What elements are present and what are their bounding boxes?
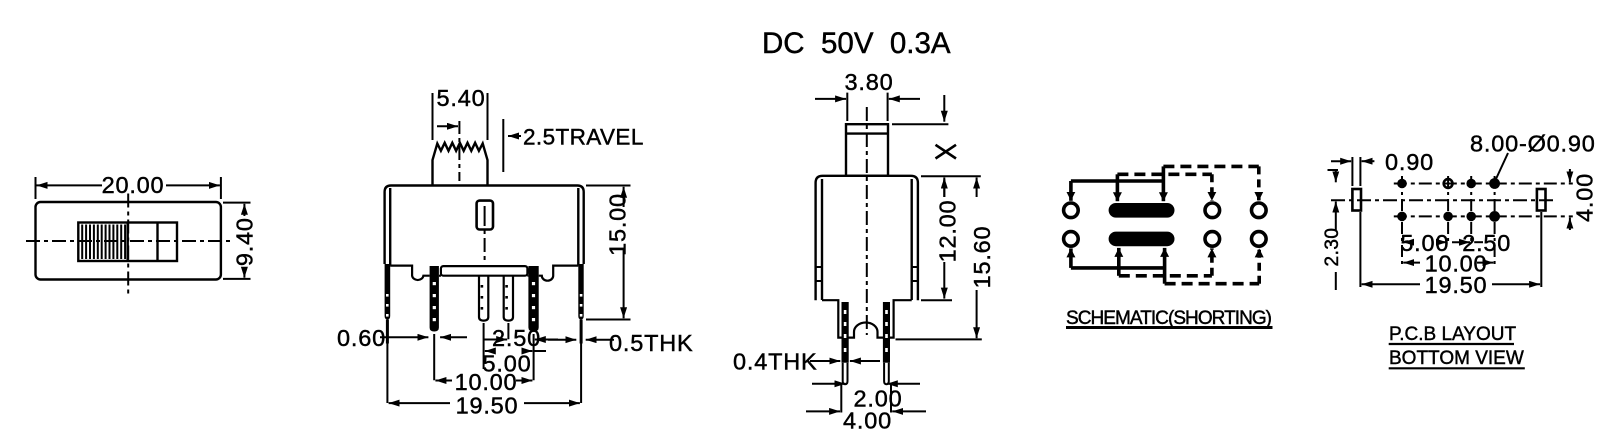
wire dashed top inner [1117, 173, 1212, 177]
terminal circle row2 col1 [1064, 232, 1079, 247]
wire dashed top outer [1163, 165, 1258, 169]
title underline 1 [1389, 343, 1514, 345]
X label [936, 145, 957, 159]
terminal circle row2 col4 [1205, 232, 1220, 247]
dimension 4.00 arrows [1569, 169, 1571, 182]
svg-text:0.90: 0.90 [1385, 149, 1434, 175]
terminal pin 5 (wide) [528, 266, 538, 332]
dimension 12.00 line with arrows [943, 179, 945, 197]
svg-text:P.C.B LAYOUT: P.C.B LAYOUT [1389, 324, 1516, 345]
hole r1c1 [1397, 179, 1407, 189]
dimension 3.80 arrows [815, 98, 846, 100]
svg-text:4.00: 4.00 [1572, 173, 1598, 222]
dimension 19.50 line with arrows [389, 402, 450, 404]
hole r2c1 [1397, 212, 1407, 222]
travel arrow to centerline [437, 125, 458, 127]
wire dashed bottom inner [1119, 274, 1212, 278]
shorting bar bottom [1109, 232, 1175, 247]
column centerline 2 [1447, 176, 1449, 242]
column centerline 1 [1401, 176, 1403, 266]
knob (side view) [846, 124, 888, 176]
main centerline (side view) [866, 107, 868, 335]
knob centerline [458, 121, 460, 181]
slider knob outline (top view) [78, 223, 177, 262]
svg-text:0.5THK: 0.5THK [609, 330, 693, 356]
dimension 4.00 extension lines [841, 384, 891, 413]
leader line to hole [1496, 153, 1509, 180]
side pin 2 [883, 302, 890, 384]
svg-text:12.00: 12.00 [935, 200, 961, 263]
pin centerline extensions [387, 323, 581, 403]
main horizontal centerline [1331, 199, 1554, 201]
hole r1c3 [1466, 179, 1476, 189]
dimension 15.00 extension lines [586, 186, 631, 320]
svg-text:BOTTOM VIEW: BOTTOM VIEW [1389, 348, 1524, 369]
hole r2c3 [1466, 212, 1476, 222]
svg-text:19.50: 19.50 [1425, 272, 1488, 298]
hole r1c2 (open) [1444, 179, 1453, 188]
dimension 5.00 line with arrows [1403, 241, 1414, 243]
dimension 0.5THK arrows [548, 339, 576, 341]
travel label arrow [508, 135, 521, 137]
svg-text:DC 50V 0.3A: DC 50V 0.3A [762, 27, 951, 60]
svg-text:8.00-Ø0.90: 8.00-Ø0.90 [1470, 131, 1596, 157]
hole r1c4 [1489, 178, 1500, 189]
dimension 0.90 arrows [1331, 160, 1351, 162]
dimension 20.00 extension lines [36, 177, 221, 199]
side latch notches [816, 267, 822, 281]
travel reference line [502, 119, 504, 172]
left mounting bracket pin [385, 264, 391, 344]
vertical centerline [127, 194, 129, 296]
terminal circle row1 col4 [1205, 203, 1220, 218]
svg-text:0.4THK: 0.4THK [733, 349, 817, 375]
pin bottom extension line [896, 338, 982, 340]
knob serration hatch [82, 225, 125, 260]
dimension 2.30 lower arrow and line [1335, 202, 1337, 231]
hole r2c2 [1443, 212, 1453, 222]
row centerline top [1394, 183, 1573, 185]
shorting bar top [1109, 203, 1175, 218]
dimension 2.30 tick [1328, 169, 1339, 171]
column centerline 3 [1470, 176, 1472, 242]
svg-text:9.40: 9.40 [232, 217, 258, 266]
svg-text:3.80: 3.80 [845, 69, 894, 95]
terminal pin 3 [479, 276, 488, 321]
dimension 5.00 line with arrows [485, 350, 495, 352]
terminal pin 4 [504, 276, 513, 321]
dimension 15.00 line with arrows [623, 187, 625, 207]
dimension 9.40 extension lines [223, 203, 251, 279]
column centerline 4 [1494, 176, 1496, 266]
dimension 20.00 line with arrows [37, 184, 103, 186]
svg-text:4.00: 4.00 [843, 408, 892, 434]
body bottom and stem outline [822, 300, 912, 337]
body top extension line [921, 175, 981, 177]
horizontal centerline [26, 240, 232, 242]
dimension 2.00 arrows [812, 383, 846, 385]
svg-text:2.30: 2.30 [1322, 228, 1343, 267]
center slot [477, 201, 493, 230]
dimension 19.50 line with arrows [1362, 283, 1420, 285]
hole r2c4 [1489, 211, 1500, 222]
svg-text:10.00: 10.00 [455, 369, 518, 395]
dimension 10.00 line with arrows [435, 380, 452, 382]
dimension 5.40 extension lines [433, 93, 488, 140]
terminal pin 2 (wide) [430, 266, 439, 332]
schematic title underline [1066, 326, 1273, 329]
X dimension upper arrow [943, 95, 945, 122]
svg-text:2.50: 2.50 [492, 325, 541, 351]
dimension 19.50 extension lines [1360, 212, 1541, 287]
svg-text:19.50: 19.50 [456, 393, 519, 419]
wire dashed bottom outer [1165, 282, 1260, 286]
dimension 3.80 extension lines [847, 93, 887, 121]
svg-text:2.5TRAVEL: 2.5TRAVEL [523, 124, 644, 149]
terminal circle row1 col1 [1064, 203, 1079, 218]
dimension 10.00 line with arrows [1403, 262, 1420, 264]
knob (front view) with knurled zigzag top [433, 143, 488, 186]
right mounting slot [1537, 189, 1546, 211]
svg-text:0.60: 0.60 [337, 325, 386, 351]
row centerline bottom [1394, 215, 1573, 217]
body centerline [484, 206, 486, 260]
switch body outline (top view) [36, 202, 221, 280]
terminal circle row1 col5 [1252, 203, 1267, 218]
dimension 2.30 upper arrow [1335, 170, 1337, 182]
dimension 15.60 bottom arrow [976, 290, 978, 338]
dimension 2.50 arrows [484, 339, 507, 341]
svg-text:20.00: 20.00 [102, 172, 165, 198]
switch body outline (front view) [385, 186, 584, 266]
body bottom extension line [921, 299, 952, 301]
dimension 4.00 arrows [806, 410, 840, 412]
right mounting bracket pin [578, 264, 583, 344]
switch body outline (side view) [816, 176, 918, 300]
svg-text:15.60: 15.60 [969, 226, 995, 289]
X dimension lower arrow / 12.00 top arrow [943, 178, 945, 198]
dimension 15.60 top arrow [976, 178, 978, 198]
dimension 0.4THK arrows [810, 360, 840, 362]
dimension 2.50 line with arrows [1452, 241, 1470, 243]
svg-text:5.40: 5.40 [437, 85, 486, 111]
knob top extension line [892, 123, 948, 125]
slot edge extension lines [1352, 157, 1360, 186]
wire solid bottom [1071, 266, 1165, 270]
side pin 1 [842, 302, 849, 384]
terminal circle row2 col5 [1252, 232, 1267, 247]
wire solid top [1071, 179, 1164, 183]
svg-text:15.00: 15.00 [605, 193, 631, 256]
dimension 9.40 line with arrows [243, 204, 245, 216]
svg-text:SCHEMATIC(SHORTING): SCHEMATIC(SHORTING) [1066, 308, 1272, 329]
title underline 2 [1389, 367, 1525, 369]
left mounting slot [1352, 189, 1361, 211]
body bottom profile with notches [390, 266, 578, 281]
